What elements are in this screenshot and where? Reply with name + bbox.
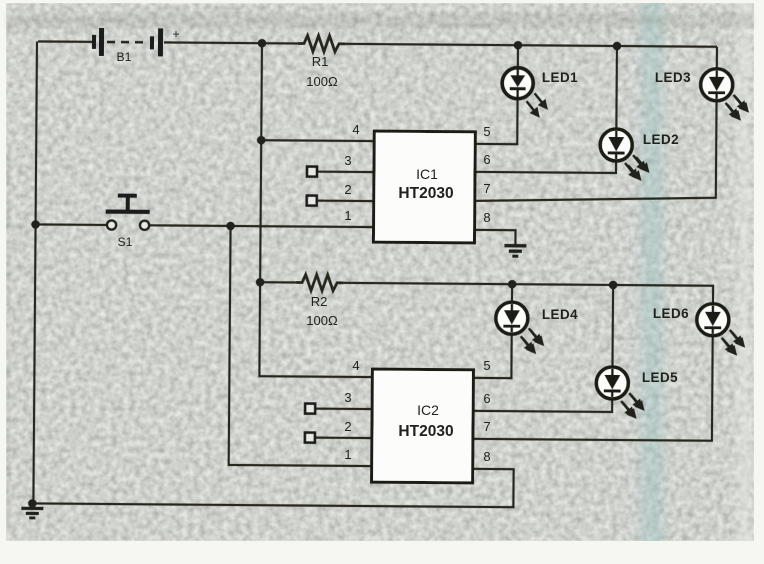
svg-text:IC1: IC1 [416, 166, 438, 182]
svg-text:+: + [172, 27, 179, 41]
svg-text:4: 4 [352, 358, 359, 373]
svg-text:R1: R1 [312, 54, 329, 69]
svg-text:5: 5 [483, 124, 490, 139]
svg-text:HT2030: HT2030 [398, 185, 453, 202]
svg-text:B1: B1 [117, 50, 132, 64]
svg-text:R2: R2 [311, 294, 328, 309]
svg-text:100Ω: 100Ω [306, 74, 338, 89]
svg-text:LED3: LED3 [655, 70, 691, 85]
svg-text:5: 5 [483, 358, 490, 373]
svg-text:LED1: LED1 [542, 70, 578, 85]
svg-text:6: 6 [483, 391, 490, 406]
svg-text:1: 1 [344, 447, 351, 462]
svg-text:3: 3 [344, 153, 351, 168]
svg-text:3: 3 [344, 390, 351, 405]
svg-text:LED5: LED5 [642, 370, 678, 385]
svg-text:8: 8 [483, 210, 490, 225]
svg-text:6: 6 [483, 152, 490, 167]
svg-text:100Ω: 100Ω [306, 313, 338, 328]
svg-text:7: 7 [483, 181, 490, 196]
svg-text:LED6: LED6 [653, 306, 689, 321]
svg-text:7: 7 [483, 419, 490, 434]
svg-text:IC2: IC2 [417, 402, 439, 418]
svg-text:2: 2 [344, 182, 351, 197]
svg-text:LED4: LED4 [542, 307, 578, 322]
svg-text:HT2030: HT2030 [398, 423, 453, 440]
svg-text:2: 2 [344, 419, 351, 434]
svg-text:1: 1 [344, 208, 351, 223]
svg-text:S1: S1 [118, 235, 133, 249]
svg-text:4: 4 [352, 122, 359, 137]
svg-text:8: 8 [483, 449, 490, 464]
svg-text:LED2: LED2 [643, 132, 679, 147]
